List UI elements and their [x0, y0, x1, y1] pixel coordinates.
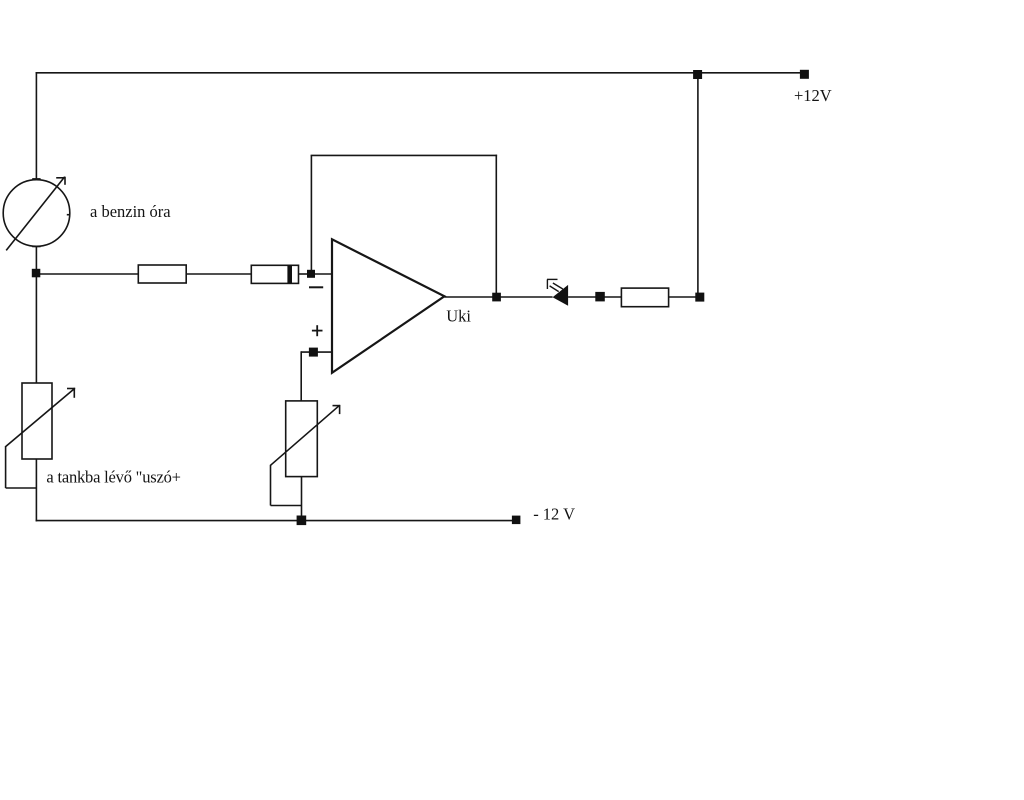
wire R2 to node C	[669, 296, 696, 298]
diode D1 body	[251, 265, 298, 283]
wire inverting node to op-amp U1 minus input	[314, 273, 332, 275]
meter M1 arrowhead	[56, 177, 65, 179]
wire plus input down to potentiometer VR2	[300, 351, 302, 401]
potentiometer VR1 wiper return wire	[5, 446, 7, 488]
wire feedback top horizontal	[311, 154, 498, 156]
resistor R2	[621, 288, 668, 307]
LED D2 light arrow shafts	[553, 283, 563, 289]
wire op-amp output to LED D2	[444, 296, 552, 298]
wire node A to resistor R1	[36, 273, 138, 275]
wire op-amp plus input	[301, 351, 332, 353]
node B square (LED to R2)	[595, 292, 605, 302]
wire feedback right vertical to output node	[495, 155, 497, 294]
LED D2 triangle	[553, 285, 569, 306]
LED D2 light arrow bracket	[547, 278, 558, 280]
diode D1 cathode band	[287, 265, 292, 283]
potentiometer VR2 wiper return wire	[270, 465, 272, 506]
svg-text:a benzin óra: a benzin óra	[90, 202, 171, 221]
svg-text:a tankba lévő "uszó+: a tankba lévő "uszó+	[46, 468, 180, 487]
svg-text:Uki: Uki	[446, 307, 471, 326]
op-amp U1 plus sign	[312, 330, 323, 332]
potentiometer VR1 arrowhead	[67, 388, 75, 390]
wire meter bottom to node A	[35, 246, 37, 270]
meter M1 right tick	[67, 214, 70, 216]
wire left drop from +12V rail to meter	[35, 72, 37, 180]
wire +12V top rail	[36, 72, 804, 74]
-12V terminal square	[512, 516, 521, 525]
potentiometer VR2 arrowhead	[333, 405, 341, 407]
potentiometer VR1 arrow shaft	[6, 389, 74, 447]
wire node B to resistor R2	[604, 296, 621, 298]
wire D1 to inverting node	[299, 273, 309, 275]
svg-text:- 12 V: - 12 V	[533, 505, 575, 524]
inverting input node square	[307, 270, 315, 278]
meter M1 circle (a benzin óra)	[3, 180, 70, 247]
node C square (R2 to +12V drop)	[695, 293, 704, 302]
wire node A down to potentiometer VR1	[35, 276, 37, 383]
non-inverting input node square	[309, 348, 318, 357]
wire R1 to diode D1	[186, 273, 251, 275]
resistor R1	[138, 265, 186, 283]
potentiometer VR1 body (tank float)	[22, 383, 52, 459]
wire -12V bottom rail	[36, 520, 516, 522]
+12V terminal square	[800, 70, 809, 79]
bottom rail junction square (VR2 to -12V rail)	[297, 516, 307, 526]
wire node C up to +12V rail	[697, 73, 699, 294]
wire VR2 bottom to -12V rail	[301, 477, 303, 517]
output node square (feedback tap)	[492, 293, 501, 302]
op-amp U1 minus sign	[309, 286, 323, 288]
meter M1 top terminal tick	[32, 178, 40, 180]
wire left column from VR1 bottom to -12V rail	[35, 459, 37, 521]
potentiometer VR2 body	[286, 401, 318, 477]
meter M1 bottom terminal tick	[32, 246, 40, 248]
wire feedback left vertical	[310, 155, 312, 271]
potentiometer VR2 arrow shaft	[271, 406, 340, 466]
svg-text:+12V: +12V	[794, 86, 832, 105]
wire LED D2 to node B	[568, 296, 596, 298]
node A junction square (meter / R1 / VR1)	[32, 269, 41, 278]
node junction square on +12V rail	[693, 70, 702, 79]
meter M1 arrow shaft	[6, 177, 64, 251]
op-amp U1 triangle	[332, 239, 444, 372]
